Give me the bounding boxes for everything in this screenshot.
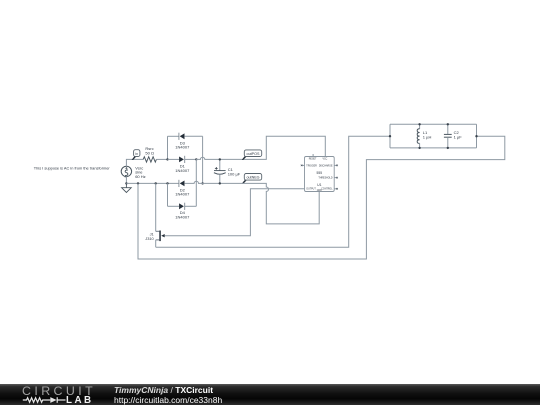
value label L1 1 uH (423, 130, 432, 140)
wire D4 branch left vertical (167, 183, 169, 206)
wire D3 row (168, 135, 203, 137)
svg-text:1N4007: 1N4007 (175, 215, 190, 220)
value label Rsrc 50 Ohm (145, 146, 154, 156)
svg-text:TRIGGER: TRIGGER (306, 165, 317, 167)
value label D3 1N4007 (175, 140, 190, 149)
diode D1 (179, 156, 185, 163)
wire resistor to node A (156, 158, 167, 160)
wire D3 branch left vertical (167, 136, 169, 159)
junction dot node A (166, 158, 168, 160)
wire ground return loop (138, 136, 505, 259)
wire D3 anode vertical (through hop) (202, 136, 204, 183)
svg-text:in: in (135, 152, 138, 156)
svg-text:outPOS: outPOS (247, 152, 260, 156)
svg-text:50 Ω: 50 Ω (145, 151, 154, 156)
inductor L1 (417, 124, 419, 148)
junction dot C1 top (219, 158, 221, 160)
diode D4 (179, 203, 185, 210)
wire D2 row with hop over D4 vertical (185, 181, 242, 183)
value label Vsrc sine 60 Hz (135, 165, 145, 179)
svg-text:U1: U1 (317, 183, 321, 187)
capacitor C1 (214, 159, 226, 183)
credit line (114, 385, 213, 395)
value label D4 1N4007 (175, 210, 190, 219)
svg-text:outNEG: outNEG (246, 175, 259, 179)
svg-text:1 µF: 1 µF (454, 135, 463, 140)
svg-text:1 µH: 1 µH (423, 135, 432, 140)
url (114, 395, 222, 405)
value label D1 1N4007 (175, 164, 190, 173)
svg-text:GND: GND (317, 190, 322, 192)
svg-text:This I suppose is AC in from t: This I suppose is AC in from the transfo… (34, 166, 111, 171)
svg-text:RESET: RESET (309, 159, 317, 161)
pin DISCHARGE stub (334, 164, 337, 166)
wire DC+ rail with hop over D3 vertical (196, 157, 242, 159)
pin THRESHOLD stub (334, 177, 337, 179)
logo word LAB (66, 395, 94, 406)
wire D1 cathode vertical to D4 (195, 159, 197, 206)
junction dot C1 bottom (219, 182, 221, 184)
svg-text:THRESHOLD: THRESHOLD (318, 178, 333, 180)
svg-text:J310: J310 (145, 236, 154, 241)
value label J1 J310 (145, 231, 154, 241)
logo word CIRCUIT (22, 384, 96, 398)
svg-text:100 µF: 100 µF (228, 171, 241, 176)
junction dot DC- at D3 vertical (201, 182, 203, 184)
junction dot node B (166, 182, 168, 184)
svg-text:555: 555 (317, 171, 323, 175)
wire DC+ rail to 555 VCC (242, 136, 325, 159)
capacitor C2 (444, 124, 452, 148)
voltage source V1 Vsrc (121, 166, 131, 177)
net flag outPOS (242, 150, 262, 160)
svg-text:1N4007: 1N4007 (175, 192, 190, 197)
junction dot C2 bottom (447, 147, 449, 149)
svg-text:VCC: VCC (322, 159, 327, 161)
value label D2 1N4007 (175, 187, 190, 196)
value label C2 1 uF (454, 130, 463, 140)
node junction at source bottom (125, 182, 127, 184)
wire source bottom (125, 177, 127, 184)
diode D3 (179, 133, 185, 140)
svg-text:OUTPUT: OUTPUT (306, 189, 316, 191)
wire source top to rail (126, 159, 143, 166)
ground (122, 183, 132, 192)
svg-text:1N4007: 1N4007 (175, 168, 190, 173)
junction dot tank left (389, 135, 391, 137)
svg-text:DISCHARGE: DISCHARGE (319, 164, 333, 167)
logo circuit glyph (0, 384, 110, 405)
svg-text:1N4007: 1N4007 (175, 145, 190, 150)
junction dot L1 bottom (418, 147, 420, 149)
555 internal labels (306, 159, 333, 193)
pin RESET stub (312, 154, 314, 157)
diode D2 (179, 180, 185, 187)
wire D1 row (168, 158, 197, 160)
pin TRIGGER stub (302, 164, 305, 166)
junction dot DC+ (195, 158, 197, 160)
wire bottom rail node B (126, 182, 178, 184)
net flag outNEG (242, 174, 262, 184)
transistor J1 JFET (156, 183, 165, 247)
junction dot (137, 182, 139, 184)
wire LC tank rectangle (390, 124, 477, 148)
wire 555 OUTPUT to J1 gate (165, 189, 305, 236)
op-amp box U1 555 timer (305, 157, 335, 192)
junction dot tank right (475, 135, 477, 137)
junction dot (155, 182, 157, 184)
wire outNEG to 555 GND with hop over OUTPUT wire (242, 183, 319, 224)
junction dot L1 top (418, 123, 420, 125)
wire D4 row (168, 205, 197, 207)
wire J1 source to LC tank left (156, 136, 390, 247)
footer bar (0, 384, 540, 405)
pin CONTROL stub (334, 188, 337, 190)
net flag in (132, 150, 140, 160)
svg-text:CONTROL: CONTROL (321, 189, 333, 191)
junction dot C2 top (447, 123, 449, 125)
resistor Rsrc (143, 157, 156, 162)
svg-text:60 Hz: 60 Hz (135, 174, 145, 179)
value label C1 100 uF (228, 167, 241, 177)
